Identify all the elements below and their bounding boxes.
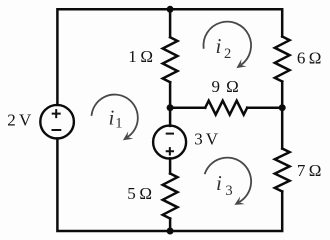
svg-text:2: 2 bbox=[224, 46, 231, 62]
svg-text:Ω: Ω bbox=[139, 184, 152, 203]
svg-text:2: 2 bbox=[7, 111, 16, 130]
svg-text:3: 3 bbox=[225, 183, 232, 199]
svg-text:6: 6 bbox=[297, 49, 306, 68]
svg-text:Ω: Ω bbox=[226, 77, 239, 96]
svg-text:V: V bbox=[19, 111, 32, 130]
svg-text:7: 7 bbox=[297, 161, 306, 180]
svg-text:1: 1 bbox=[128, 47, 137, 66]
svg-text:9: 9 bbox=[212, 77, 221, 96]
svg-text:3: 3 bbox=[194, 130, 203, 149]
svg-text:1: 1 bbox=[115, 116, 122, 132]
svg-text:V: V bbox=[206, 130, 219, 149]
svg-text:i: i bbox=[216, 34, 222, 58]
svg-text:5: 5 bbox=[127, 184, 136, 203]
svg-text:Ω: Ω bbox=[140, 47, 153, 66]
svg-text:Ω: Ω bbox=[309, 161, 322, 180]
svg-text:i: i bbox=[216, 171, 222, 195]
svg-text:i: i bbox=[109, 105, 115, 129]
svg-text:Ω: Ω bbox=[309, 49, 322, 68]
